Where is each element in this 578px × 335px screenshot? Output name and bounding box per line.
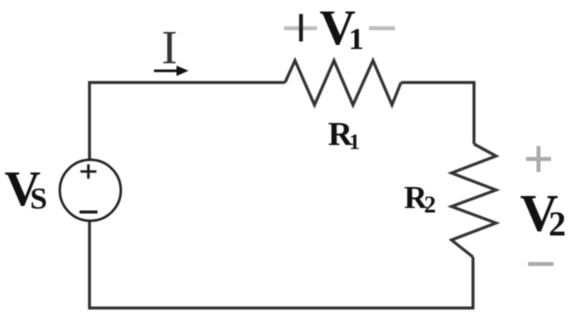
- polarity plus of V1 (gray horizontal, black vertical): [284, 14, 317, 42]
- polarity minus of V2: [528, 262, 554, 266]
- wire top-left segment: [90, 83, 286, 161]
- wire bottom segment: [90, 221, 475, 308]
- resistor R2: [452, 144, 497, 257]
- current arrow: [154, 66, 189, 76]
- svg-text:1: 1: [349, 129, 360, 154]
- svg-text:1: 1: [349, 21, 365, 56]
- voltage source VS: [60, 160, 121, 221]
- polarity minus of V1: [369, 26, 395, 30]
- wire top-right segment: [401, 83, 474, 145]
- source minus sign: [80, 211, 98, 214]
- source plus sign: [80, 164, 96, 178]
- resistor R1: [285, 61, 401, 106]
- svg-text:2: 2: [549, 205, 567, 244]
- polarity plus of V2: [526, 146, 551, 172]
- wire right-bottom segment: [472, 257, 475, 308]
- svg-text:S: S: [30, 181, 47, 216]
- svg-text:2: 2: [424, 193, 436, 219]
- svg-text:I: I: [162, 22, 178, 75]
